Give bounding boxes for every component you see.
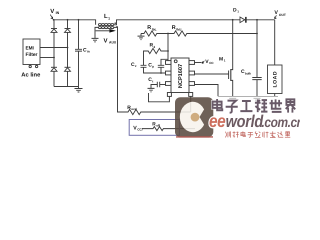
svg-text:R: R <box>172 25 176 31</box>
svg-text:NCP1607: NCP1607 <box>178 64 184 88</box>
svg-text:Ac line: Ac line <box>21 72 41 79</box>
svg-text:EMI: EMI <box>26 46 34 51</box>
svg-text:2: 2 <box>154 45 156 49</box>
svg-text:fbU: fbU <box>176 27 182 31</box>
svg-text:1: 1 <box>108 16 110 20</box>
svg-text:V: V <box>50 8 54 15</box>
svg-text:.com.cn: .com.cn <box>262 114 300 130</box>
svg-text:in: in <box>87 50 90 54</box>
svg-text:z: z <box>135 64 137 68</box>
svg-text:1: 1 <box>237 10 239 14</box>
svg-text:bulk: bulk <box>245 71 251 75</box>
svg-text:LOAD: LOAD <box>273 71 279 88</box>
svg-text:ee: ee <box>209 111 226 131</box>
svg-text:1: 1 <box>224 59 226 63</box>
svg-text:world: world <box>226 112 264 131</box>
svg-text:p: p <box>152 65 154 69</box>
svg-text:M: M <box>219 56 223 62</box>
svg-text:Filter: Filter <box>26 52 38 58</box>
svg-text:off: off <box>156 124 160 128</box>
svg-text:IN: IN <box>56 11 60 15</box>
svg-text:V: V <box>104 37 108 44</box>
svg-text:OUT: OUT <box>279 13 286 17</box>
svg-text:CC: CC <box>209 61 214 65</box>
svg-text:fbL: fbL <box>152 27 157 31</box>
svg-text:t: t <box>152 79 153 83</box>
svg-text:V: V <box>274 10 278 16</box>
svg-text:R: R <box>147 25 151 31</box>
svg-text:ocd: ocd <box>131 107 137 111</box>
svg-text:CC/: CC/ <box>137 128 142 132</box>
svg-text:AUX: AUX <box>109 41 117 45</box>
